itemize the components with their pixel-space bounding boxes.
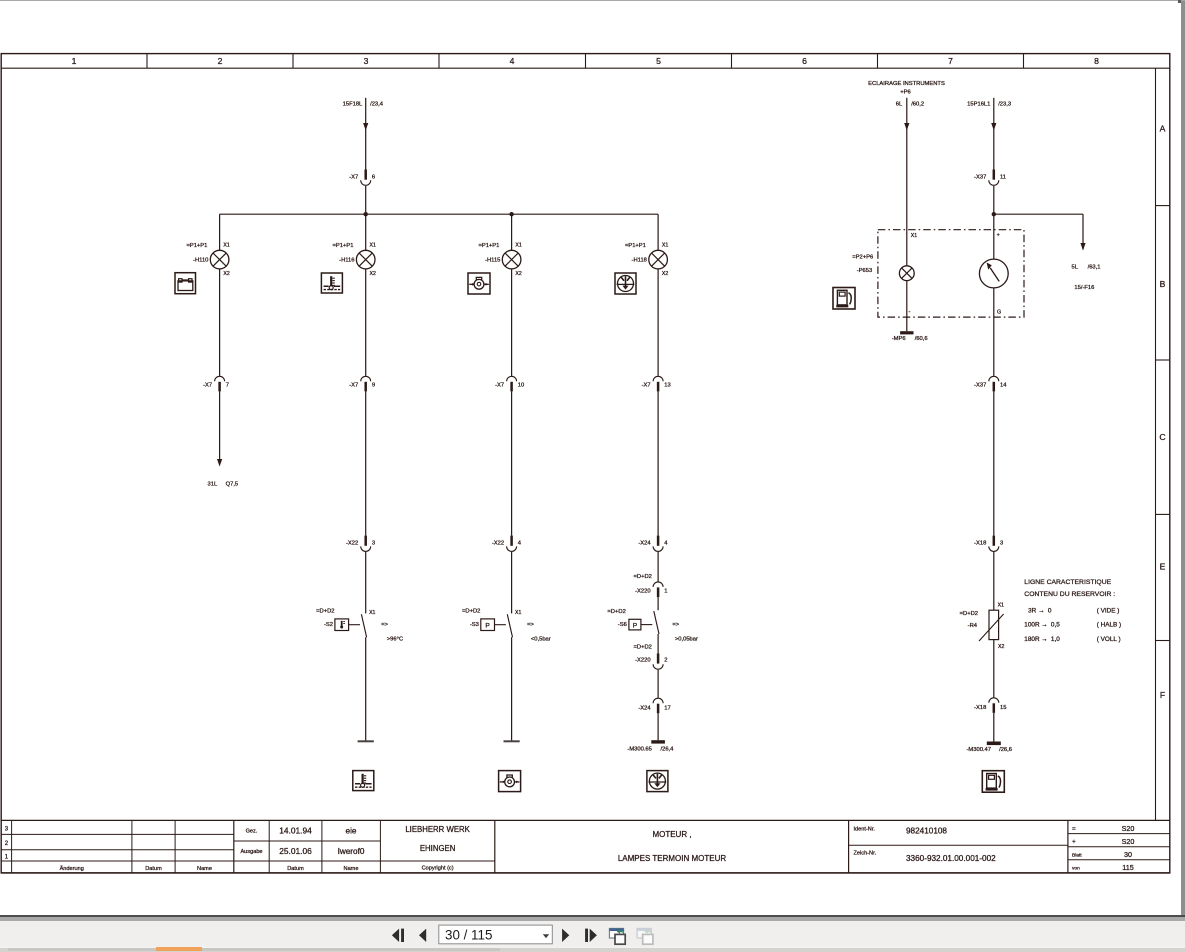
branch 2 termination bar <box>358 740 374 742</box>
wire: lamp H118 to X7 <box>657 269 659 376</box>
svg-text:X1: X1 <box>369 610 375 616</box>
svg-text:2: 2 <box>664 658 667 664</box>
symbol icon: oil pressure (bottom) <box>499 771 521 792</box>
switch S6 actuator box (P) <box>629 619 652 630</box>
svg-text:=>: => <box>527 622 534 628</box>
toolbar separator grey line <box>0 917 1185 921</box>
symbol icon: coolant level (H118) <box>615 273 636 294</box>
svg-text:von: von <box>1072 867 1080 872</box>
svg-text:F: F <box>1160 690 1165 700</box>
svg-text:9: 9 <box>372 383 375 389</box>
svg-text:3: 3 <box>364 56 369 66</box>
svg-text:=P2+P6: =P2+P6 <box>852 254 873 260</box>
top-right notch <box>1178 0 1181 3</box>
nav: next view icon (disabled) <box>637 928 653 944</box>
svg-text:LAMPES TERMOIN MOTEUR: LAMPES TERMOIN MOTEUR <box>618 854 727 863</box>
svg-text:/26,4: /26,4 <box>661 747 675 753</box>
svg-text:Ident-Nr.: Ident-Nr. <box>854 827 876 833</box>
svg-text:1: 1 <box>5 854 9 860</box>
svg-text:3: 3 <box>1000 541 1003 547</box>
connector X18 pin 15 <box>974 698 1006 713</box>
svg-text:/60,6: /60,6 <box>915 336 928 342</box>
svg-text:-X220: -X220 <box>635 658 650 664</box>
svg-text:X1: X1 <box>515 610 521 616</box>
wire: feed 6L down to lamp P653 <box>904 98 909 266</box>
svg-text:-X7: -X7 <box>642 383 651 389</box>
svg-text:A: A <box>1160 124 1166 134</box>
svg-text:=P1+P1: =P1+P1 <box>478 243 499 249</box>
wire: X7:9 down to X22:3 <box>365 391 367 535</box>
viewer top hairline <box>0 0 1185 1</box>
svg-text:B: B <box>1160 279 1166 289</box>
indicator lamp H115 <box>502 250 521 269</box>
svg-text:MOTEUR ,: MOTEUR , <box>652 830 691 839</box>
svg-text:ECLAIRAGE INSTRUMENTS: ECLAIRAGE INSTRUMENTS <box>868 81 945 87</box>
svg-text:10: 10 <box>518 383 524 389</box>
svg-text:14: 14 <box>1000 383 1007 389</box>
svg-text:982410108: 982410108 <box>906 827 947 836</box>
bottom sliver base <box>0 946 1185 947</box>
page number combo box <box>439 925 553 944</box>
svg-text:-S3: -S3 <box>470 622 479 628</box>
svg-text:3R: 3R <box>1028 608 1037 615</box>
title block: drawing title <box>618 830 727 863</box>
variable resistor R4 (level sender) <box>979 610 1004 641</box>
wire: X22:3 to switch S2 <box>365 552 367 613</box>
nav: previous view icon <box>609 928 625 944</box>
svg-text:5L: 5L <box>1072 264 1079 270</box>
nav: next page button <box>562 929 569 942</box>
wire: X37:11 down to gauge <box>993 186 995 259</box>
wire: R4 to X18:15 <box>993 640 995 698</box>
connector X7 pin 10 <box>495 376 524 391</box>
connector X7 pin 6 <box>349 170 375 186</box>
svg-text:P: P <box>633 622 638 629</box>
svg-text:/23,4: /23,4 <box>370 101 384 107</box>
svg-text:/26,6: /26,6 <box>999 747 1012 753</box>
svg-text:6L: 6L <box>896 102 903 108</box>
svg-text:-X7: -X7 <box>203 383 212 389</box>
label: 5L /63,1 15/-F16 <box>1072 264 1101 291</box>
svg-text:Name: Name <box>197 866 212 872</box>
label: feed 6L /60,2 <box>896 102 924 108</box>
svg-text:-X37: -X37 <box>974 383 986 389</box>
connector X37 pin 11 <box>974 170 1006 186</box>
title block: Gez / Ausgabe cells <box>240 826 364 872</box>
pressure switch S3 contact <box>507 614 512 637</box>
svg-text:( VIDE ): ( VIDE ) <box>1097 608 1120 615</box>
svg-text:30: 30 <box>1124 850 1132 859</box>
svg-text:>0,05bar: >0,05bar <box>675 636 698 642</box>
symbol icon: coolant temperature (H116) <box>321 273 342 293</box>
wire: X37:14 down to X18:3 <box>993 391 995 535</box>
svg-text:3360-932.01.00.001-002: 3360-932.01.00.001-002 <box>906 854 996 863</box>
wire: X7:7 to sheet exit 31L <box>217 391 222 466</box>
svg-text:-X7: -X7 <box>349 383 358 389</box>
svg-text:=P1+P1: =P1+P1 <box>333 243 354 249</box>
svg-text:15F18L: 15F18L <box>343 101 363 107</box>
svg-text:2: 2 <box>5 841 9 847</box>
connector X7 pin 9 <box>349 376 375 391</box>
svg-text:-X220: -X220 <box>635 588 650 594</box>
svg-text:+P6: +P6 <box>900 90 910 96</box>
connector X24 pin 4 <box>638 536 668 552</box>
wire: X22:4 to switch S3 <box>511 552 513 613</box>
temperature switch S2 contact <box>361 614 366 637</box>
nav: first page button <box>392 929 404 942</box>
column ruler band <box>1 54 1170 69</box>
wire: X7:13 down to X24:4 <box>657 391 659 535</box>
svg-text:Ausgabe: Ausgabe <box>240 849 262 855</box>
labels for lamp H110 <box>186 243 229 278</box>
svg-text:Datum: Datum <box>287 866 304 872</box>
svg-text:15P16L1: 15P16L1 <box>967 102 990 108</box>
label: feed 15P16L1 /23,3 <box>967 102 1011 108</box>
svg-text:15: 15 <box>1000 705 1006 711</box>
svg-text:-S2: -S2 <box>324 622 333 628</box>
wire: feed into X7:6 <box>363 98 368 170</box>
svg-text:1: 1 <box>664 588 667 594</box>
wire: gauge to X37:14 <box>993 288 995 376</box>
junction dot at gauge wire <box>992 212 996 216</box>
switch S2 actuator box <box>335 619 360 631</box>
svg-text:Iwerof0: Iwerof0 <box>338 847 365 856</box>
wire: X18:15 to ground <box>993 713 995 742</box>
row letters A B C E F <box>1159 124 1165 701</box>
label: ECLAIRAGE INSTRUMENTS +P6 <box>868 81 945 95</box>
wire: S3 to branch end <box>511 637 513 741</box>
wire: X24:17 to ground <box>657 713 659 740</box>
symbol icon: battery (H110) <box>175 273 196 294</box>
svg-text:=: = <box>1072 825 1076 832</box>
svg-text:-X22: -X22 <box>346 541 358 547</box>
taskbar darker segment left <box>8 948 156 951</box>
nav: last page button <box>585 929 597 942</box>
svg-text:S20: S20 <box>1122 837 1135 846</box>
svg-text:=D+D2: =D+D2 <box>960 611 978 617</box>
svg-text:8: 8 <box>1094 56 1099 66</box>
svg-text:=>: => <box>672 622 679 628</box>
svg-text:→: → <box>1041 622 1047 629</box>
svg-text:Blatt: Blatt <box>1072 853 1082 859</box>
svg-text:17: 17 <box>664 706 670 712</box>
svg-text:C: C <box>1159 432 1165 442</box>
svg-text:25.01.06: 25.01.06 <box>279 846 312 856</box>
svg-text:X2: X2 <box>223 271 229 277</box>
svg-text:-H118: -H118 <box>632 257 647 263</box>
svg-text:G: G <box>997 309 1001 315</box>
svg-text:P: P <box>485 623 490 630</box>
instrument panel dash-dot enclosure <box>878 230 1024 317</box>
label =D+D2 above X220:1 <box>634 574 652 580</box>
svg-text:100R: 100R <box>1024 622 1040 629</box>
labels for lamp H116 <box>333 243 376 278</box>
switch S3 actuator box (P) <box>481 619 506 631</box>
svg-text:-H110: -H110 <box>193 257 208 263</box>
svg-text:E: E <box>1160 561 1166 571</box>
svg-text:115: 115 <box>1122 863 1133 872</box>
svg-text:-P653: -P653 <box>857 268 872 274</box>
indicator lamp H110 <box>210 250 229 269</box>
svg-text:=D+D2: =D+D2 <box>316 608 334 614</box>
wire: X18:3 to resistor R4 <box>993 552 995 610</box>
svg-text:X2: X2 <box>998 644 1004 650</box>
labels for S2 <box>316 608 403 642</box>
svg-text:=P1+P1: =P1+P1 <box>186 243 207 249</box>
svg-text:13: 13 <box>664 383 670 389</box>
taskbar highlighted item (orange) <box>156 947 202 951</box>
svg-text:>96°C: >96°C <box>387 636 403 642</box>
svg-text:30 / 115: 30 / 115 <box>445 927 492 942</box>
svg-text:S20: S20 <box>1122 824 1135 833</box>
svg-text:LIEBHERR WERK: LIEBHERR WERK <box>405 825 470 834</box>
wire: S6 to X220:2 <box>657 634 659 653</box>
svg-text:=D+D2: =D+D2 <box>634 644 652 650</box>
wire: right bus to 5L drop <box>994 214 1086 250</box>
svg-text:4: 4 <box>664 541 668 547</box>
wire: S2 to branch end <box>365 637 367 741</box>
wire: bus to lamp H116 <box>365 214 367 250</box>
svg-text:-R4: -R4 <box>968 623 978 629</box>
title block: sheet table <box>1072 824 1134 872</box>
svg-text:-X22: -X22 <box>492 541 504 547</box>
svg-text:14.01.94: 14.01.94 <box>279 826 312 836</box>
svg-text:180R: 180R <box>1024 636 1040 643</box>
svg-text:-X24: -X24 <box>638 706 651 712</box>
title block: revision rows text <box>5 827 212 872</box>
ground M300.65 <box>651 740 665 743</box>
svg-text:4: 4 <box>518 541 522 547</box>
toolbar background <box>0 921 1185 947</box>
svg-text:-MP6: -MP6 <box>892 336 906 342</box>
connector X22 pin 4 <box>492 536 522 552</box>
svg-text:eie: eie <box>346 827 357 836</box>
svg-text:-H116: -H116 <box>339 257 354 263</box>
junction dots on bus <box>364 212 514 216</box>
symbol icon: coolant temperature (bottom) <box>353 771 374 791</box>
toolbar separator dark line <box>0 915 1185 917</box>
svg-text:/23,3: /23,3 <box>998 102 1011 108</box>
connector X220 pin 2 <box>635 653 667 669</box>
table: fuel level characteristic <box>1024 579 1121 643</box>
label: 31L Q7,5 <box>208 482 239 488</box>
label =D+D2 above X220:2 <box>634 644 652 650</box>
svg-text:Änderung: Änderung <box>60 865 84 872</box>
wire: lamp H115 to X7 <box>511 269 513 376</box>
connector X18 pin 3 <box>974 536 1003 552</box>
symbol icon: coolant level (bottom) <box>647 771 668 792</box>
svg-text:<0,5bar: <0,5bar <box>531 636 551 642</box>
svg-text:X1: X1 <box>998 603 1004 609</box>
svg-text:-S6: -S6 <box>618 622 627 628</box>
svg-text:/63,1: /63,1 <box>1088 264 1101 270</box>
svg-text:Zeich-Nr.: Zeich-Nr. <box>854 851 877 857</box>
svg-text:X1: X1 <box>515 243 521 249</box>
svg-text:0: 0 <box>1048 608 1052 615</box>
svg-text:-X24: -X24 <box>638 541 651 547</box>
svg-text:2: 2 <box>218 56 223 66</box>
connector X37 pin 14 <box>974 376 1007 391</box>
labels for S6 <box>607 609 698 642</box>
svg-text:-X37: -X37 <box>974 175 986 181</box>
indicator lamp H116 <box>356 250 375 269</box>
svg-text:( VOLL ): ( VOLL ) <box>1097 636 1121 643</box>
indicator lamp H118 <box>649 250 668 269</box>
wire: lamp H116 to X7 <box>365 269 367 376</box>
column numbers 1-8 <box>72 56 1100 66</box>
svg-text:→: → <box>1038 608 1044 615</box>
svg-text:X2: X2 <box>662 271 668 277</box>
svg-text:-X18: -X18 <box>974 541 986 547</box>
svg-text:/60,2: /60,2 <box>911 102 924 108</box>
svg-text:6: 6 <box>802 56 807 66</box>
title block: Ident-Nr / Zeich-Nr <box>854 827 997 864</box>
symbol icon: fuel pump (at P653) <box>833 288 855 310</box>
svg-text:-X7: -X7 <box>495 383 504 389</box>
label: feed 15F18L /23,4 <box>343 101 384 107</box>
pressure switch S6 contact <box>654 611 659 634</box>
svg-text:Datum: Datum <box>145 866 162 872</box>
labels for lamp H115 <box>478 243 521 278</box>
svg-text:X2: X2 <box>515 271 521 277</box>
svg-text:-: - <box>908 309 910 315</box>
wire: X220:1 to switch S6 <box>657 597 659 610</box>
connector X7 pin 7 <box>203 376 229 391</box>
label: -M300.47 /26,6 <box>967 747 1013 753</box>
svg-text:Copyright (c): Copyright (c) <box>422 866 454 872</box>
svg-text:-X18: -X18 <box>974 705 986 711</box>
svg-text:0,5: 0,5 <box>1051 622 1060 629</box>
taskbar darker segment mid <box>202 948 500 951</box>
wire: X7:6 to bus <box>365 186 367 214</box>
nav: previous page button <box>419 929 426 942</box>
svg-text:15/-F16: 15/-F16 <box>1074 285 1094 291</box>
branch 3 termination bar <box>504 740 520 742</box>
ground M300.47 <box>987 742 1001 746</box>
wire: feed into X37:11 <box>991 98 996 170</box>
svg-text:4: 4 <box>510 56 515 66</box>
labels for R4 <box>960 603 1005 650</box>
svg-text:11: 11 <box>1000 175 1006 181</box>
fuel gauge P (needle instrument) <box>979 259 1008 288</box>
svg-text:LIGNE CARACTERISTIQUE: LIGNE CARACTERISTIQUE <box>1024 579 1111 586</box>
svg-text:( HALB ): ( HALB ) <box>1097 622 1122 629</box>
wire: bus to lamp H118 <box>657 214 659 250</box>
wire: bus to lamp H110 <box>219 214 221 250</box>
svg-text:X1: X1 <box>370 243 376 249</box>
svg-text:5: 5 <box>656 56 661 66</box>
ground MP6 <box>900 331 913 334</box>
svg-text:-H115: -H115 <box>485 257 500 263</box>
svg-text:Q7,5: Q7,5 <box>226 482 239 488</box>
svg-text:CONTENU DU RESERVOIR :: CONTENU DU RESERVOIR : <box>1024 591 1115 598</box>
svg-text:3: 3 <box>372 541 375 547</box>
svg-text:EHINGEN: EHINGEN <box>420 844 456 853</box>
wire: X24:4 to X220:1 <box>657 552 659 582</box>
svg-text:6: 6 <box>372 175 375 181</box>
wire: lamp supply bus <box>220 213 658 215</box>
svg-text:1,0: 1,0 <box>1051 636 1060 643</box>
connector X220 pin 1 <box>635 582 667 597</box>
title block: manufacturer cell <box>405 825 470 872</box>
wire: lamp H110 to X7 <box>219 269 221 376</box>
row letter strip <box>1156 68 1170 820</box>
wire: lamp P653 to ground MP6 <box>906 281 908 332</box>
svg-text:3: 3 <box>5 827 9 833</box>
svg-text:1: 1 <box>72 56 77 66</box>
connector X22 pin 3 <box>346 536 375 552</box>
svg-text:-M300.47: -M300.47 <box>967 747 992 753</box>
svg-text:X2: X2 <box>370 271 376 277</box>
svg-text:=P1+P1: =P1+P1 <box>625 243 646 249</box>
svg-text:7: 7 <box>948 56 953 66</box>
svg-text:+: + <box>997 232 1000 238</box>
svg-text:Name: Name <box>344 866 359 872</box>
labels for lamp H118 <box>625 243 668 278</box>
symbol icon: oil pressure (H115) <box>468 273 490 294</box>
wire: X220:2 to X24:17 <box>657 670 659 698</box>
labels + and G for gauge <box>997 232 1002 315</box>
svg-text:+: + <box>1072 839 1076 846</box>
svg-text:Gez.: Gez. <box>246 829 258 835</box>
symbol icon: fuel pump (bottom) <box>982 771 1004 793</box>
svg-text:X1: X1 <box>911 233 917 239</box>
labels for lamp P653 <box>852 233 917 315</box>
svg-text:7: 7 <box>226 383 229 389</box>
title block grid <box>1 820 1170 873</box>
svg-text:→: → <box>1041 636 1047 643</box>
connector X24 pin 17 <box>638 698 670 713</box>
label: -M300.65 /26,4 <box>627 747 674 753</box>
svg-text:=>: => <box>381 622 388 628</box>
label: -MP6 /60,6 <box>892 336 928 342</box>
svg-text:-M300.65: -M300.65 <box>627 747 652 753</box>
right page shadow strip <box>1181 1 1185 915</box>
svg-text:=D+D2: =D+D2 <box>607 609 625 615</box>
svg-text:X1: X1 <box>223 243 229 249</box>
svg-text:-X7: -X7 <box>349 175 358 181</box>
svg-text:31L: 31L <box>208 482 218 488</box>
labels for S3 <box>462 608 551 642</box>
svg-text:=D+D2: =D+D2 <box>462 608 480 614</box>
svg-text:X1: X1 <box>662 243 668 249</box>
wire: X7:10 down to X22:4 <box>511 391 513 535</box>
connector X7 pin 13 <box>642 376 671 391</box>
indicator lamp P653 <box>899 266 914 281</box>
wire: bus to lamp H115 <box>511 214 513 250</box>
svg-text:=D+D2: =D+D2 <box>634 574 652 580</box>
